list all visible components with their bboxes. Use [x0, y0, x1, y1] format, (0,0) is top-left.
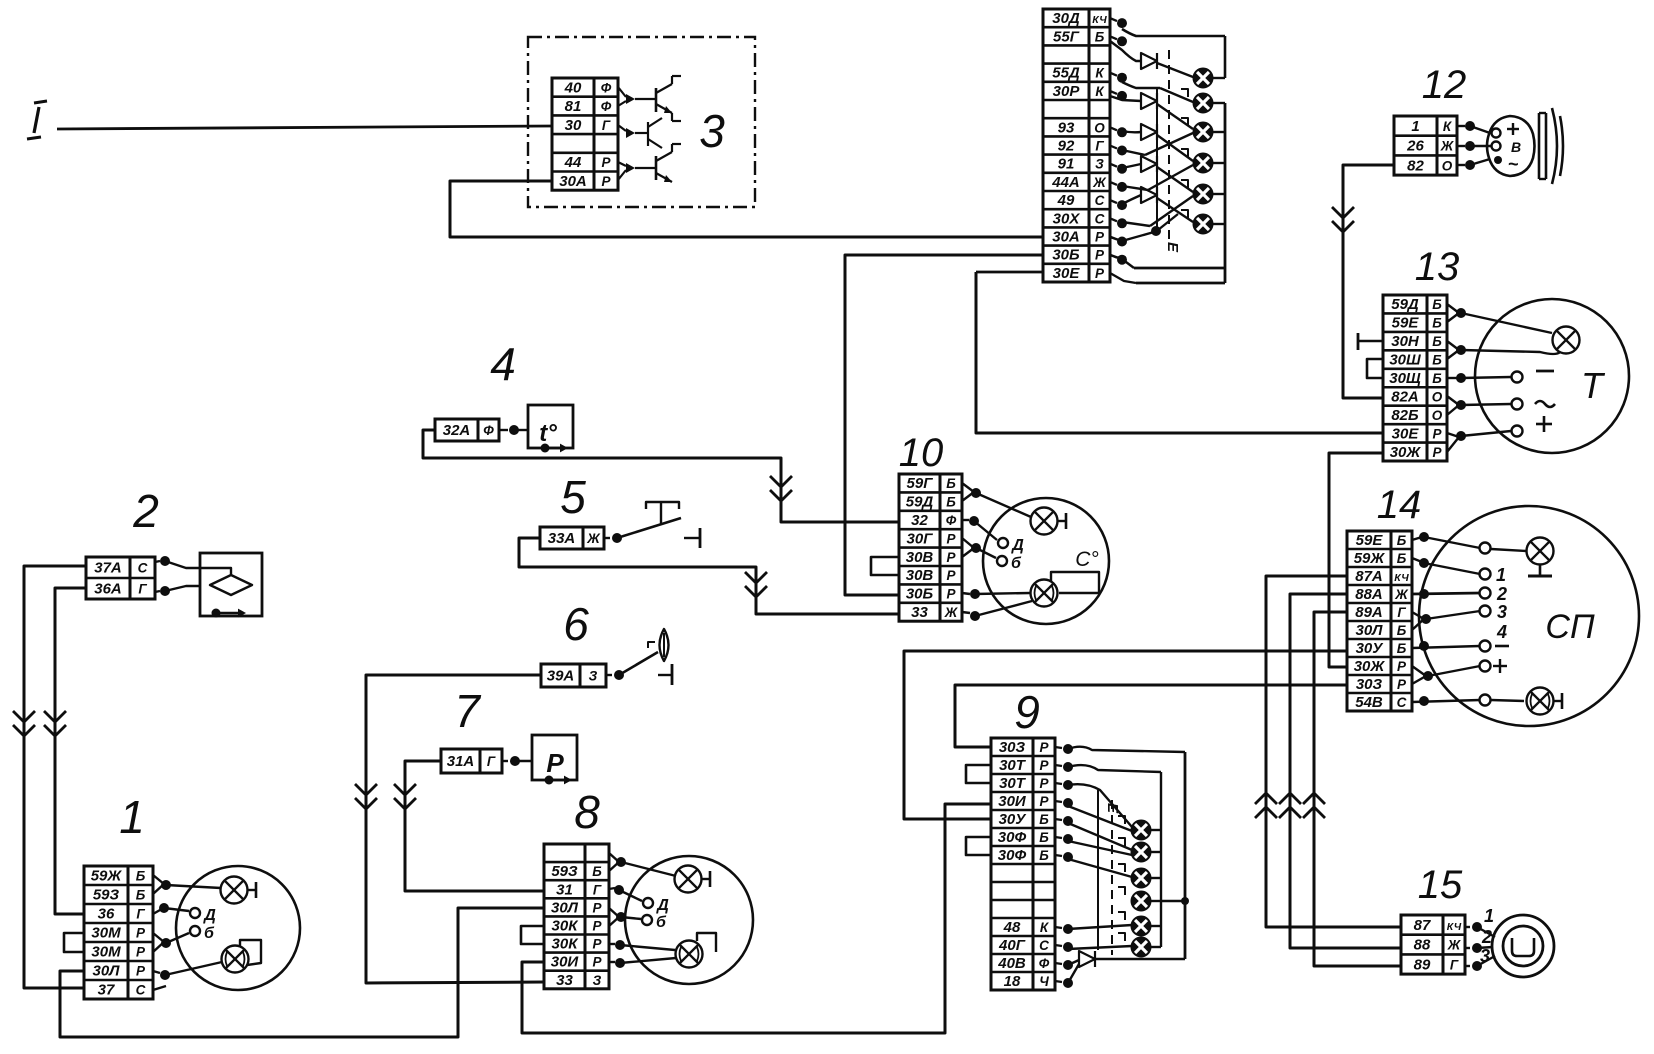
svg-text:4: 4 [1496, 622, 1507, 642]
svg-text:30Б: 30Б [906, 586, 934, 603]
wire D1 to lamp L1 [1157, 63, 1193, 77]
svg-text:t°: t° [539, 420, 557, 447]
svg-text:Е: Е [1104, 803, 1121, 814]
wire 30У net (component 9 to 14) [904, 651, 1347, 819]
buzzer resonator plates [1538, 113, 1541, 179]
svg-text:Б: Б [946, 476, 956, 491]
svg-text:31: 31 [556, 881, 573, 898]
svg-text:59З: 59З [93, 887, 120, 904]
svg-text:Е: Е [1164, 242, 1181, 253]
lamp L6 [1194, 215, 1213, 234]
svg-text:10: 10 [899, 431, 944, 475]
svg-text:б: б [656, 914, 667, 931]
lamp M3 [1132, 869, 1151, 888]
wire to fog lamp of 8 [620, 945, 675, 950]
fixed contact of component 6 [658, 674, 672, 676]
jumper bracket rows 30В-30В of 10 [871, 557, 899, 575]
terminal 2 [1480, 588, 1491, 599]
contact row 88А [1419, 589, 1429, 599]
relay box [532, 735, 577, 780]
svg-text:Р: Р [592, 918, 602, 933]
svg-text:Б: Б [1039, 812, 1049, 827]
svg-text:Ж: Ж [1394, 587, 1409, 602]
node I label [34, 101, 47, 103]
wire to terminal Б [976, 548, 996, 558]
contact row 31 of 8 [609, 888, 615, 889]
wire 30Б from block 11 to component 10 [845, 255, 1043, 595]
component 15 contact dots [1472, 922, 1482, 932]
svg-text:40: 40 [564, 79, 582, 96]
contact pair 30Л/30К of 8 [609, 908, 619, 917]
svg-text:З: З [1095, 157, 1104, 172]
block 11 row 92 blade [1122, 150, 1145, 155]
wire diode to bottom bus [1095, 958, 1185, 961]
block 11 row 30Х blade [1122, 222, 1150, 226]
wire 30И to fog lamp of 8 [620, 958, 676, 963]
svg-text:Ж: Ж [586, 531, 601, 546]
cut marker on wire 32А [770, 476, 792, 487]
svg-text:Р: Р [946, 550, 956, 565]
svg-text:Г: Г [1450, 957, 1459, 972]
lamp L4 [1194, 154, 1213, 173]
terminal 1 [1480, 569, 1491, 580]
svg-text:Р: Р [1039, 740, 1049, 755]
svg-text:32: 32 [911, 512, 928, 529]
svg-text:СП: СП [1545, 608, 1595, 646]
wire 32А from component 4 to 10 [423, 430, 899, 522]
probe symbol at row 30Н [1357, 333, 1360, 350]
svg-text:Ж: Ж [944, 605, 959, 620]
fog lamp of component 14 [1527, 688, 1554, 715]
row 40В blade to diode D9 [1068, 960, 1079, 965]
svg-text:Ф: Ф [946, 513, 957, 528]
svg-text:30Б: 30Б [1052, 247, 1080, 264]
svg-text:Р: Р [546, 748, 564, 778]
plus sign [1536, 423, 1552, 426]
svg-text:6: 6 [563, 598, 589, 650]
wire from row 37 of 1 up-left [153, 986, 166, 990]
svg-text:~: ~ [1508, 154, 1519, 174]
lamp M1 [1132, 821, 1151, 840]
svg-text:2: 2 [1496, 584, 1507, 604]
svg-text:Ф: Ф [601, 99, 612, 114]
fog lamp housing of 8 [697, 933, 716, 952]
svg-text:Б: Б [1432, 353, 1442, 368]
svg-text:93: 93 [1058, 119, 1075, 136]
flasher bottom dot and arrow [212, 609, 221, 618]
lamp L1 [1194, 69, 1213, 88]
buzzer plus sign [1507, 128, 1519, 130]
wire from block3 pin 30А to connector 11 row 30А [450, 181, 1043, 237]
svg-text:37А: 37А [94, 560, 122, 577]
wire 87А net (component 14 to 15) [1266, 576, 1401, 927]
connector table of component 5 [540, 527, 604, 549]
svg-text:30М: 30М [91, 925, 121, 942]
svg-text:36А: 36А [94, 581, 122, 598]
wire 36 net (component 2 to 1) [55, 588, 86, 914]
block 11 row 55Г to diode D1 [1110, 41, 1141, 61]
cut marker on wire 31А [394, 784, 416, 795]
contact row 30Щ [1447, 377, 1459, 379]
wire to ac terminal [1461, 404, 1511, 405]
wire to terminal 3 [1426, 611, 1480, 619]
switch blade of component 5 [617, 518, 681, 538]
svg-text:30Н: 30Н [1391, 333, 1420, 350]
buzzer terminals [1492, 129, 1501, 138]
component 9 contact dots [1055, 747, 1062, 748]
svg-text:30И: 30И [551, 954, 580, 971]
connector table of component 14 [1347, 531, 1412, 711]
svg-text:Р: Р [946, 568, 956, 583]
wire to terminal Б of 8 [621, 917, 641, 919]
svg-text:Р: Р [1432, 426, 1442, 441]
wire 33А from component 5 to 10 [519, 538, 899, 614]
buzzer horn lens [1552, 108, 1557, 184]
connector table of component 8 [544, 844, 609, 989]
svg-text:Д: Д [1010, 537, 1024, 554]
svg-text:Г: Г [593, 882, 602, 897]
svg-text:81: 81 [565, 98, 582, 115]
svg-text:37: 37 [98, 982, 115, 999]
diode D4 [1141, 156, 1157, 172]
connector block 11 table [1043, 9, 1110, 282]
svg-text:39А: 39А [547, 668, 575, 685]
svg-text:15: 15 [1418, 863, 1463, 907]
svg-text:3: 3 [699, 105, 725, 157]
relay bottom dot and arrow [545, 776, 554, 785]
svg-text:18: 18 [1004, 973, 1021, 990]
wires to lighter body [1477, 927, 1495, 937]
gang bar of 9 (solid) [1097, 790, 1099, 950]
contact pair 89А/30Л [1412, 612, 1424, 619]
component 3 enclosure (dash-dot) [528, 37, 755, 207]
svg-text:Б: Б [1397, 641, 1407, 656]
contact row 30И of 8 [609, 961, 615, 963]
svg-text:33: 33 [911, 604, 928, 621]
flasher box [200, 553, 262, 616]
svg-text:92: 92 [1058, 138, 1075, 155]
svg-text:1: 1 [1411, 118, 1419, 135]
connector table of component 9 [991, 738, 1055, 990]
ground symbol under lamp [1539, 565, 1542, 576]
lamp M4 stub to right bus [1161, 900, 1185, 902]
svg-text:88А: 88А [1355, 586, 1383, 603]
contact row 33 of 10 [962, 612, 970, 613]
svg-text:59Ж: 59Ж [91, 868, 123, 885]
cut marker on wire 37 [13, 711, 35, 722]
svg-text:2: 2 [132, 485, 159, 537]
contact pair 82А/82Б [1447, 396, 1459, 405]
block 11 row 30Б bus line [1134, 267, 1225, 270]
svg-text:7: 7 [454, 685, 481, 737]
connector table of component 6 [541, 664, 606, 687]
wire to fog lamp [1491, 700, 1524, 701]
svg-text:1: 1 [1496, 565, 1506, 585]
svg-text:О: О [1432, 408, 1443, 423]
terminal 3 [1480, 606, 1491, 617]
row 30Т-2 blade to lamp M1 [1068, 784, 1132, 827]
svg-text:30А: 30А [1052, 229, 1080, 246]
component 6 contact dot [606, 674, 612, 676]
wire inside flasher [200, 568, 231, 576]
svg-text:Р: Р [1095, 248, 1105, 263]
svg-text:Б: Б [136, 888, 146, 903]
lamp M6 [1132, 938, 1151, 957]
row 30Ф blade to lamp M2 [1068, 841, 1132, 855]
wire to lamp of 8 [621, 862, 676, 876]
fog lamp of component 1 [222, 946, 249, 973]
wire to terminal Д of 8 [619, 890, 642, 901]
svg-text:Б: Б [1432, 371, 1442, 386]
lamp L5 [1194, 185, 1213, 204]
lighter cup symbol [1512, 938, 1534, 956]
terminal of fog lamp [1480, 695, 1491, 706]
component 7 contact dot [502, 760, 508, 762]
svg-text:Р: Р [592, 900, 602, 915]
svg-text:1: 1 [119, 791, 145, 843]
component 5 contact dot [604, 537, 610, 539]
svg-text:Р: Р [592, 955, 602, 970]
svg-text:Г: Г [1095, 139, 1104, 154]
lamp M5 [1132, 917, 1151, 936]
wire 30Е from block 11 to component 13 [976, 272, 1383, 433]
wire to plus terminal [1461, 431, 1511, 436]
connector table of component 4 [435, 419, 499, 441]
svg-text:30К: 30К [552, 917, 580, 934]
block 11 row 30Б blade [1110, 255, 1134, 268]
svg-text:82А: 82А [1391, 388, 1419, 405]
svg-text:Ж: Ж [1440, 139, 1455, 154]
lamp hook stubs of 9 [1118, 816, 1125, 824]
svg-text:30Ф: 30Ф [998, 829, 1027, 846]
wire 30И net (component 8 to 9) [522, 804, 991, 1033]
terminal Б of 10 [997, 556, 1007, 566]
lens symbol of component 6 [660, 629, 669, 661]
connector table of component 13 [1383, 295, 1447, 461]
svg-text:Р: Р [1397, 659, 1407, 674]
lamp hook stubs [1181, 89, 1188, 97]
svg-text:Ч: Ч [1039, 974, 1049, 989]
wire to terminal Д [974, 521, 997, 540]
lamp M4 [1132, 892, 1151, 911]
svg-text:Р: Р [1397, 677, 1407, 692]
cut marker on wire 33А [745, 572, 767, 583]
block 11 row 93 to diode D3 [1122, 131, 1141, 132]
component 4 contact dot [499, 429, 508, 431]
svg-text:О: О [1094, 120, 1105, 135]
svg-text:30Г: 30Г [907, 530, 934, 547]
block 11 gang bar (dashed) [1168, 50, 1170, 242]
flasher diamond [210, 575, 252, 595]
svg-text:30Щ: 30Щ [1389, 370, 1421, 387]
svg-text:Р: Р [136, 964, 146, 979]
wire 89А net (component 14 to 15) [1314, 612, 1401, 966]
wire to terminal Д of 1 [164, 908, 189, 911]
ac terminal [1512, 399, 1523, 410]
wire D4 to lamp L5 [1157, 167, 1193, 192]
contact pair 30Ж/30З [1412, 666, 1426, 676]
lamp tick of 1 [248, 889, 256, 891]
contact pair 59Ж/59З of 1 [153, 875, 164, 884]
component 14 housing circle [1419, 506, 1639, 726]
svg-text:89: 89 [1414, 956, 1431, 973]
svg-text:89А: 89А [1355, 604, 1383, 621]
svg-text:Б: Б [1397, 533, 1407, 548]
svg-text:55Д: 55Д [1052, 65, 1080, 82]
wire to fog lamp of 1 [165, 962, 222, 975]
svg-text:30И: 30И [998, 793, 1027, 810]
wire D2 to lamp L3 [1157, 104, 1193, 129]
svg-text:59Е: 59Е [1392, 315, 1420, 332]
svg-text:30Л: 30Л [1356, 622, 1384, 639]
lamp stubs to inner bus of 9 [1150, 829, 1161, 831]
contact pair 59Г/59Д of 10 [962, 483, 974, 492]
svg-text:В: В [1511, 139, 1521, 155]
svg-text:Р: Р [1432, 445, 1442, 460]
gang bar of 9 (dashed) [1111, 800, 1113, 955]
row 30З wire to right bus [1068, 747, 1185, 752]
svg-text:87А: 87А [1355, 568, 1383, 585]
svg-text:30: 30 [565, 117, 582, 134]
lamp of component 13 [1553, 327, 1580, 354]
svg-text:30В: 30В [906, 549, 934, 566]
svg-text:Д: Д [202, 907, 216, 924]
lamp M2 [1132, 843, 1151, 862]
block 11 row 30Е blade [1110, 273, 1136, 283]
svg-text:30Е: 30Е [1053, 265, 1081, 282]
svg-text:30Е: 30Е [1392, 425, 1420, 442]
svg-text:Б: Б [1397, 551, 1407, 566]
tilde sign [1535, 401, 1555, 407]
wires to flasher box [165, 561, 200, 568]
cut marker on wire 89А [1303, 793, 1325, 804]
contact row 54В [1419, 696, 1429, 706]
wire 44А to lamp L4 [1148, 165, 1193, 190]
buzzer body [1487, 116, 1535, 176]
svg-text:26: 26 [1406, 138, 1424, 155]
svg-text:Б: Б [946, 495, 956, 510]
fog lamp tick [1554, 700, 1562, 702]
svg-text:Ж: Ж [1447, 938, 1462, 953]
wire 30Л net (component 1 to 8) [60, 908, 544, 1037]
svg-text:30Х: 30Х [1053, 210, 1081, 227]
block 11 row 91 to diode D4 [1122, 164, 1141, 168]
svg-text:б: б [1011, 555, 1022, 572]
svg-text:48: 48 [1003, 919, 1021, 936]
svg-text:Р: Р [946, 531, 956, 546]
svg-text:30К: 30К [552, 936, 580, 953]
jumper bracket rows 30Ш-30Щ [1367, 359, 1383, 378]
row 30Ф-2 blade to lamp M3 [1068, 859, 1132, 877]
wire terminal to lamp [1491, 549, 1526, 551]
svg-text:30В: 30В [906, 567, 934, 584]
svg-text:30З: 30З [1356, 676, 1383, 693]
svg-text:1: 1 [1484, 906, 1494, 926]
lamp L2 [1194, 94, 1213, 113]
row 18 blade to diode D9 [1068, 964, 1079, 983]
lamp L3 [1194, 123, 1213, 142]
svg-text:54В: 54В [1355, 694, 1383, 711]
svg-text:КЧ: КЧ [1394, 572, 1409, 584]
contact pair 30Н/30Ш [1447, 341, 1459, 350]
block 11 row 44А blade [1122, 186, 1148, 190]
svg-text:КЧ: КЧ [1092, 14, 1107, 26]
svg-text:Р: Р [1039, 794, 1049, 809]
panel lamp of component 8 [675, 866, 702, 893]
svg-text:36: 36 [98, 906, 115, 923]
fog lamp of component 10 [1031, 580, 1058, 607]
row 30Т wire to inner bus [1068, 765, 1161, 772]
cut marker on wire 87А [1255, 793, 1277, 804]
wire I to block 3 pin 30 [57, 126, 552, 129]
component 1 housing circle [176, 866, 300, 990]
svg-text:Б: Б [1397, 623, 1407, 638]
row 48 blade to lamp M5 [1068, 925, 1132, 929]
fog lamp housing of 1 [240, 940, 261, 965]
svg-text:30Л: 30Л [551, 899, 579, 916]
svg-text:Б: Б [1432, 297, 1442, 312]
wire to lamp [976, 493, 1031, 517]
svg-text:Р: Р [1095, 266, 1105, 281]
svg-text:82Б: 82Б [1391, 407, 1419, 424]
fixed contact of component 5 [684, 537, 700, 539]
lamp terminal [1480, 543, 1491, 554]
svg-text:Ж: Ж [1092, 175, 1107, 190]
svg-text:Р: Р [1039, 776, 1049, 791]
svg-text:59Д: 59Д [1391, 296, 1419, 313]
svg-text:44: 44 [564, 154, 582, 171]
wire to fog lamp of 10 [975, 593, 1030, 594]
svg-text:КЧ: КЧ [1447, 921, 1462, 933]
terminal Б of 1 [190, 926, 200, 936]
svg-text:Б: Б [1432, 334, 1442, 349]
wires dots to buzzer [1470, 126, 1490, 133]
svg-text:30Л: 30Л [93, 963, 121, 980]
lighter outer circle [1492, 915, 1554, 977]
svg-text:Ф: Ф [601, 80, 612, 95]
svg-text:С: С [1095, 193, 1105, 208]
svg-text:9: 9 [1014, 686, 1040, 738]
jumper bracket rows 30Ф-30Ф of 9 [966, 837, 991, 855]
svg-text:87: 87 [1414, 917, 1431, 934]
wire D3 to lamp L4 [1157, 135, 1193, 161]
svg-text:Г: Г [136, 907, 145, 922]
terminal Д of 8 [643, 898, 653, 908]
fog lamp of component 8 [676, 941, 703, 968]
svg-text:59Е: 59Е [1356, 532, 1384, 549]
block 11 row 49 to diode D5 [1122, 195, 1141, 204]
contact row 59Ж [1412, 558, 1422, 562]
svg-text:33А: 33А [548, 530, 576, 547]
svg-text:30У: 30У [999, 811, 1028, 828]
block 11 row 30А blade [1110, 232, 1154, 241]
svg-text:12: 12 [1422, 63, 1467, 107]
svg-text:55Г: 55Г [1053, 28, 1080, 45]
wire to minus terminal [1461, 377, 1511, 378]
wire 30З net (component 9 to 14) [955, 685, 1347, 747]
svg-text:Г: Г [138, 582, 147, 597]
contact row 30Л of 1 [153, 971, 160, 973]
connector table of component 3 [552, 78, 618, 190]
wire 30Ж component 13 to 14 [1329, 453, 1383, 667]
panel lamp of component 1 [221, 877, 248, 904]
contact pair top of 8 [609, 853, 619, 862]
terminal plus [1480, 661, 1491, 672]
svg-text:Б: Б [1095, 29, 1105, 44]
diode D9 of component 9 [1079, 951, 1095, 967]
contact row 36 of 1 [153, 910, 160, 914]
lamp tick of 10 [1058, 520, 1066, 522]
